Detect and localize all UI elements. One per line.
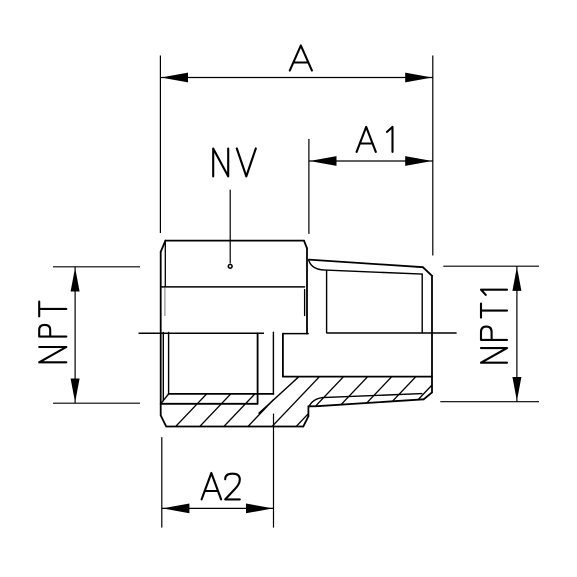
arrow NPT bottom [71,379,80,403]
dim NPT1 extension top [443,265,539,267]
dim NPT extension bottom [53,402,140,404]
dim A/A1 extension right [432,56,434,256]
female bore line [169,393,274,395]
dim NPT line [74,267,76,403]
transition cone [259,377,298,413]
centerline [139,332,457,335]
body top-left chamfer [161,241,166,252]
step face C [282,334,284,377]
body right edge [306,248,308,334]
step edge B [272,332,274,394]
female thread end face A [257,333,259,404]
male bore line [283,376,432,378]
male right face [431,276,433,393]
female root line [161,403,258,405]
male tip top chamfer [423,267,432,276]
body bottom edge (section) [166,426,303,428]
female chamfer vertical 1 [162,333,164,401]
shoulder face [307,406,309,416]
body chamfer line [162,286,305,288]
label NV [213,149,228,177]
dim A1 line [309,160,433,162]
dim A1 extension left [308,139,310,234]
arrow A left [161,73,188,83]
male bottom crest line (section outline) [308,399,423,406]
dim NPT1 extension bottom [440,401,539,403]
arrow NPT1 bottom [512,377,521,401]
hex facet faint edge [164,288,166,317]
dim A2 extension right [273,414,275,528]
male bottom root line [323,394,422,398]
male thread start vertical [326,270,328,333]
hex facet edge left [164,241,166,287]
label NPT1 (rotated 90 CCW, reads upward) [481,348,507,363]
female opening chamfer [161,394,169,404]
label NPT (rotated 90 CCW, reads upward) [39,347,66,362]
label A2 [202,473,222,499]
dim NPT1 line [516,266,518,402]
male bottom runout curve [309,398,323,407]
arrow A1 left [310,156,337,166]
arrow A1 right [405,156,432,166]
arrowheads [71,73,522,514]
body top edge [165,240,304,242]
dim A2 line [162,507,274,509]
male top crest line [323,270,423,274]
dim NPT extension top [53,266,140,268]
dim A line [160,77,432,79]
arrow NPT top [71,268,80,292]
body bottom-left chamfer [161,415,167,426]
female chamfer vertical 2 (thread start) [168,333,170,394]
hex facet edge right (below chamfer line) [304,290,306,316]
NV leader line [229,190,231,264]
dim A extension left [159,56,161,234]
section hatching [172,370,470,430]
NV leader circle [228,264,232,268]
body top-right chamfer [304,241,307,248]
arrow A2 right [246,504,273,514]
arrow NPT1 top [512,267,521,291]
arrow A2 left [162,504,189,514]
arrow A right [405,73,432,83]
body bottom-right chamfer [303,416,308,426]
male thread end vertical [421,274,423,333]
male tip bottom chamfer [424,392,432,399]
male top runout curve [309,261,323,270]
label A [290,46,312,71]
label A1 [357,127,376,152]
dim A2 extension left [161,437,163,527]
body left edge [160,252,162,416]
male top outer line [309,260,423,268]
